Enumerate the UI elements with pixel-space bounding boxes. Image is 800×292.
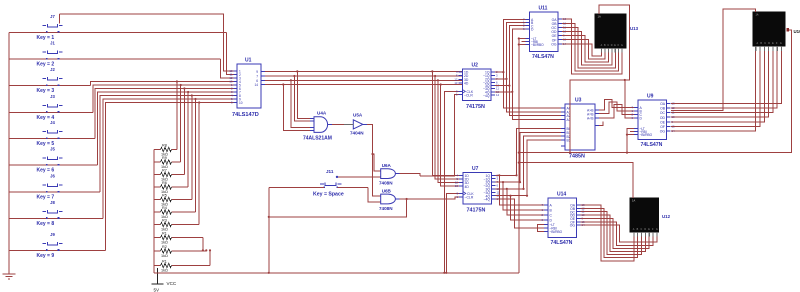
wire row 8 (switch J8 to encoder net)	[9, 217, 103, 219]
wire resistor R8 riser	[176, 82, 178, 150]
svg-text:~BI/RBO: ~BI/RBO	[550, 230, 563, 234]
wire U14 OD to U12 pin	[581, 215, 646, 251]
wire U9 OG to U10 pin	[671, 51, 756, 131]
wire U11 OC to U13 pin	[562, 27, 615, 68]
wire U2 Q2 to U11 and U3	[495, 78, 507, 80]
svg-text:7408N: 7408N	[379, 181, 393, 186]
svg-text:7408N: 7408N	[379, 206, 393, 211]
wire U9 LT/BI hook	[627, 129, 634, 135]
wire U14 OE to U12 pin	[581, 218, 650, 248]
switch J11 (Key = Space)	[313, 169, 344, 197]
resistor R3 1k	[154, 218, 199, 231]
display U10 seven-segment	[753, 12, 800, 51]
wire row 3 (switch J2 to encoder net)	[9, 85, 91, 87]
svg-text:J9: J9	[50, 232, 55, 237]
wire U6B output to U7 CLR	[400, 197, 460, 199]
svg-text:74175N: 74175N	[466, 104, 485, 110]
svg-text:U4A: U4A	[317, 111, 327, 116]
wire U11 OD to U13 pin	[562, 32, 612, 66]
wire U1 output A to U2	[265, 70, 463, 72]
wire U9 hook drop	[626, 135, 628, 153]
decoder U14 74LS47N	[541, 192, 585, 246]
wire U12 common anode wrap	[519, 163, 633, 198]
svg-text:U12: U12	[662, 214, 671, 219]
svg-text:OF: OF	[660, 125, 665, 129]
resistor R2 1k	[154, 245, 206, 258]
wire row 6 (switch J5 to encoder net)	[9, 164, 98, 166]
wire display common to U9 input 4	[625, 80, 634, 118]
wire row 5 (switch J4 to encoder net)	[9, 138, 95, 140]
svg-text:9: 9	[256, 70, 258, 74]
svg-text:5V: 5V	[154, 288, 161, 292]
decoder U11 74LS47N	[523, 6, 567, 60]
svg-text:Key = Space: Key = Space	[313, 191, 344, 197]
svg-text:R7: R7	[162, 168, 167, 172]
svg-text:U1: U1	[245, 58, 252, 64]
svg-text:1kΩ: 1kΩ	[161, 254, 168, 258]
wire U2 Q3 to U11 and U3	[495, 85, 509, 87]
wire U1 output tap to U4A input 4	[283, 85, 310, 131]
ground rail wire (left vertical)	[8, 32, 10, 273]
switch J8 (Key = 8)	[37, 200, 63, 227]
wire row 1 (switch J7 to encoder net)	[9, 31, 227, 33]
svg-text:G: G	[656, 228, 658, 231]
switch J1 (Key = 2)	[37, 41, 63, 68]
wire row 3 wrap to U1 input	[91, 82, 234, 86]
switch J7 (Key = 1)	[37, 14, 63, 41]
wire U14 OF to U12 pin	[581, 222, 654, 246]
wire U1 output tap to U7 input 1	[432, 71, 459, 175]
resistor R8 1k	[154, 143, 177, 156]
wire row 9 wrap to U1 input	[106, 103, 234, 251]
svg-text:OD: OD	[660, 116, 666, 120]
wire row 1 wrap to U1 input	[227, 32, 234, 74]
wire U9 OE to U10 pin	[671, 51, 764, 122]
wire U7 Q1 to U3 B input	[496, 174, 517, 176]
resistor R10 1k	[154, 231, 203, 244]
svg-text:U9: U9	[647, 94, 654, 100]
svg-text:1A: 1A	[632, 199, 635, 203]
svg-text:J3: J3	[50, 94, 55, 99]
svg-text:OC: OC	[660, 111, 666, 115]
resistor R5 1k	[154, 193, 192, 206]
svg-text:R9: R9	[162, 156, 167, 160]
svg-text:74LS147D: 74LS147D	[232, 112, 259, 118]
wire U9 OD to U10 pin	[671, 51, 769, 117]
svg-text:D: D	[768, 42, 770, 45]
svg-text:74LS47N: 74LS47N	[641, 142, 663, 148]
wire row 4 wrap to U1 input	[93, 85, 234, 112]
svg-text:7485N: 7485N	[569, 154, 585, 160]
svg-text:G: G	[621, 44, 623, 47]
wire U7 CLK to bottom rail	[446, 193, 459, 272]
wire U3 cascade loop	[599, 122, 603, 126]
wire row 5 wrap to U1 input	[95, 89, 233, 139]
wire U7 ~4Q to U14 RBI	[496, 199, 545, 228]
wire U7 Q1 to U14 input	[499, 175, 544, 205]
wire U7 Q3 to U14 input	[507, 189, 544, 215]
svg-text:74LS47N: 74LS47N	[532, 54, 554, 60]
svg-text:R8: R8	[162, 143, 167, 147]
wire U2 Q1 to U11 and U3	[495, 71, 503, 73]
wire J7 vertical stub	[59, 14, 61, 24]
switch J4 (Key = 5)	[37, 120, 63, 147]
svg-text:A<B: A<B	[587, 116, 594, 120]
resistor R4 1k	[154, 206, 195, 219]
svg-text:OA: OA	[660, 102, 666, 106]
svg-text:OG: OG	[551, 42, 557, 46]
svg-text:J6: J6	[50, 174, 55, 179]
svg-text:U6B: U6B	[382, 189, 392, 194]
wire U9 OB to U10 pin	[671, 51, 777, 108]
inverter U5A 7404N	[344, 113, 367, 136]
svg-text:U11: U11	[539, 6, 548, 12]
svg-text:D: D	[644, 228, 646, 231]
AND gate U6B 7408N	[379, 189, 400, 211]
flip-flop U7 74175N	[455, 166, 500, 214]
resistor R6 1k	[154, 181, 188, 194]
display U12 seven-segment	[630, 198, 671, 237]
AND gate U4A 74ALS21AM	[303, 111, 332, 142]
svg-text:74LS47N: 74LS47N	[551, 240, 573, 246]
switch J9 (Key = 9)	[37, 232, 63, 259]
wire U14 OA to U12 pin	[581, 205, 634, 261]
wire U3 A<B to U9	[599, 104, 634, 117]
wire U14 OG to U12 pin	[581, 225, 657, 242]
wire U9 OF to U10 pin	[671, 51, 760, 126]
svg-text:OE: OE	[660, 120, 666, 124]
wire U1 output tap to U7 input 4	[441, 85, 459, 187]
svg-text:~CLR: ~CLR	[464, 93, 473, 97]
svg-text:U7: U7	[472, 166, 479, 172]
svg-text:74175N: 74175N	[467, 207, 486, 213]
wire U10 side nub wrap to VCC line	[519, 30, 792, 153]
wire U7 Q4 to U14 input	[511, 196, 545, 220]
wire resistor R5 riser	[191, 96, 193, 200]
wire U1 output D to U2	[265, 84, 463, 86]
wire U4A output to U5A	[332, 123, 344, 125]
svg-text:U10: U10	[794, 29, 800, 34]
switch J3 (Key = 4)	[37, 94, 63, 121]
svg-text:C: C	[641, 228, 643, 231]
wire row 2 wrap to U1 input	[221, 59, 234, 78]
wire U7 Q4 to U3 B input	[496, 195, 528, 197]
svg-text:J1: J1	[50, 41, 55, 46]
wire resistor R6 riser	[187, 92, 189, 187]
svg-text:OG: OG	[570, 224, 576, 228]
ground symbol	[3, 274, 16, 279]
wire U9 OC to U10 pin	[671, 51, 773, 113]
wire U1 output tap to U4A input 3	[291, 80, 310, 127]
flip-flop U2 74175N	[454, 63, 499, 111]
wire J11 right to U6B lower input	[368, 187, 381, 202]
VCC rail (resistor left rail)	[153, 150, 155, 273]
wire U13 common anode wrap	[570, 5, 630, 153]
wire U10 common anode wrap	[671, 9, 756, 110]
svg-text:R5: R5	[162, 193, 167, 197]
resistor R1 1k	[154, 259, 210, 272]
svg-text:D: D	[611, 44, 613, 47]
wire U6A output to U2 CLR	[400, 174, 421, 176]
switch J5 (Key = 6)	[37, 147, 63, 174]
wire resistor R2 riser	[205, 249, 207, 252]
AND gate U6A 7408N	[379, 163, 400, 186]
display U13 seven-segment	[595, 14, 639, 53]
wire row 8 wrap to U1 input	[103, 99, 234, 218]
wire resistor R1 riser	[209, 250, 211, 265]
svg-text:13: 13	[455, 184, 459, 188]
wire branch to U6A upper input	[373, 154, 381, 171]
wire U1 output tap to U4A input 1	[297, 71, 310, 118]
wire J11 left drop to VCC rail	[268, 187, 270, 272]
wire U7 Q3 to U3 B input	[496, 188, 524, 190]
svg-text:1A: 1A	[756, 14, 759, 17]
wire U14 OB to U12 pin	[581, 208, 638, 257]
comparator U3 7485N	[561, 98, 599, 160]
wire resistor R7 riser	[183, 89, 185, 175]
wire U5A output down to U6B upper input	[367, 124, 381, 196]
switch J6 (Key = 7)	[37, 174, 63, 201]
power VCC 5V	[152, 268, 177, 292]
svg-text:4D: 4D	[464, 82, 469, 86]
svg-text:10: 10	[239, 101, 243, 105]
wire U6B output branch to J11 rail	[269, 199, 407, 217]
wire row 7 wrap to U1 input	[100, 96, 233, 193]
wire Key=Space row	[269, 186, 324, 188]
wire U7 Q2 to U14 input	[503, 182, 544, 210]
wire J11 node to U6A input	[337, 176, 381, 178]
encoder U1 74LS147D	[229, 58, 265, 119]
wire U11 OG to U13 pin	[562, 44, 602, 56]
svg-text:R1: R1	[162, 259, 167, 263]
wire U11 LT/BI hook	[519, 39, 526, 45]
svg-text:J5: J5	[50, 147, 55, 152]
svg-text:~BI/RBO: ~BI/RBO	[531, 43, 544, 47]
svg-text:U2: U2	[472, 63, 479, 69]
wire VCC bottom distribution	[154, 272, 519, 274]
svg-text:R6: R6	[162, 181, 167, 185]
wire row 4 (switch J3 to encoder net)	[9, 111, 93, 113]
svg-text:~4Q: ~4Q	[483, 198, 490, 202]
svg-text:~4Q: ~4Q	[483, 94, 490, 98]
svg-text:J11: J11	[326, 169, 334, 174]
wire resistor R4 riser	[195, 99, 197, 212]
resistor R9 1k	[154, 156, 181, 169]
wire U2 Q4 to U11 and U3	[495, 91, 512, 93]
svg-text:R1: R1	[162, 231, 167, 235]
switch J2 (Key = 3)	[37, 67, 63, 94]
wire resistor R3 riser	[198, 103, 200, 225]
wire U11 OA to U13 pin	[562, 19, 622, 74]
svg-text:~CLR: ~CLR	[465, 196, 474, 200]
wire VCC riser x518	[518, 39, 520, 273]
svg-text:C: C	[764, 42, 766, 45]
svg-text:U13: U13	[630, 26, 639, 31]
wire U1 output tap to U7 input 3	[438, 80, 459, 182]
svg-text:1kΩ: 1kΩ	[161, 269, 168, 273]
wire resistor R10 riser	[202, 238, 204, 251]
svg-text:U3: U3	[575, 98, 582, 104]
svg-text:Key = 8: Key = 8	[37, 221, 55, 227]
wire U1 output tap to U4A input 2	[294, 76, 310, 121]
wire U1 output B to U2	[265, 75, 463, 77]
wire row 6 wrap to U1 input	[98, 92, 234, 165]
wire resistor R9 riser	[180, 85, 182, 162]
wire U3 A>B to U9	[599, 99, 634, 110]
svg-text:Key = 9: Key = 9	[37, 253, 55, 259]
svg-text:14: 14	[254, 83, 258, 87]
wire J7 top route to U1 pin 1	[60, 14, 234, 71]
svg-text:VCC: VCC	[167, 281, 177, 286]
resistor R7 1k	[154, 168, 184, 181]
wire U11 OB to U13 pin	[562, 23, 619, 71]
svg-text:C: C	[607, 44, 609, 47]
svg-text:OB: OB	[660, 107, 666, 111]
svg-text:13: 13	[454, 81, 458, 85]
wire U14 LT/BI hook	[538, 225, 545, 232]
wire U1 output tap to U7 input 2	[435, 76, 459, 179]
svg-text:J7: J7	[50, 14, 55, 19]
wire U3 A=B to U9	[599, 102, 634, 114]
svg-text:R4: R4	[162, 206, 167, 210]
svg-text:J8: J8	[50, 200, 55, 205]
wire U7 Q2 to U3 B input	[496, 181, 521, 183]
wire row 9 (switch J9 to encoder net)	[9, 249, 106, 251]
svg-text:74ALS21AM: 74ALS21AM	[303, 136, 332, 142]
svg-text:~BI/RBO: ~BI/RBO	[640, 133, 653, 137]
wire U9 OA to U10 pin	[671, 51, 782, 103]
svg-text:U5A: U5A	[353, 113, 363, 118]
svg-text:R2: R2	[162, 245, 167, 249]
wire U2 CLK to bottom rail	[444, 91, 458, 272]
svg-text:7404N: 7404N	[350, 131, 364, 136]
svg-text:R3: R3	[162, 218, 167, 222]
svg-text:1A: 1A	[598, 15, 601, 19]
svg-text:14: 14	[496, 93, 500, 97]
svg-text:OG: OG	[660, 130, 666, 134]
wire U11 OE to U13 pin	[562, 36, 609, 62]
wire U1 output C to U2	[265, 79, 463, 81]
svg-text:J4: J4	[50, 120, 55, 125]
svg-text:U14: U14	[557, 192, 566, 198]
svg-text:U6A: U6A	[382, 163, 392, 168]
svg-text:G: G	[780, 42, 782, 45]
wire U14 OC to U12 pin	[581, 212, 642, 255]
svg-text:4D: 4D	[465, 185, 470, 189]
decoder U9 74LS47N	[631, 94, 675, 148]
svg-text:J2: J2	[50, 67, 55, 72]
wire row 2 (switch J1 to encoder net)	[9, 58, 221, 60]
wire U11 OF to U13 pin	[562, 40, 605, 59]
wire row 7 (switch J6 to encoder net)	[9, 191, 100, 193]
